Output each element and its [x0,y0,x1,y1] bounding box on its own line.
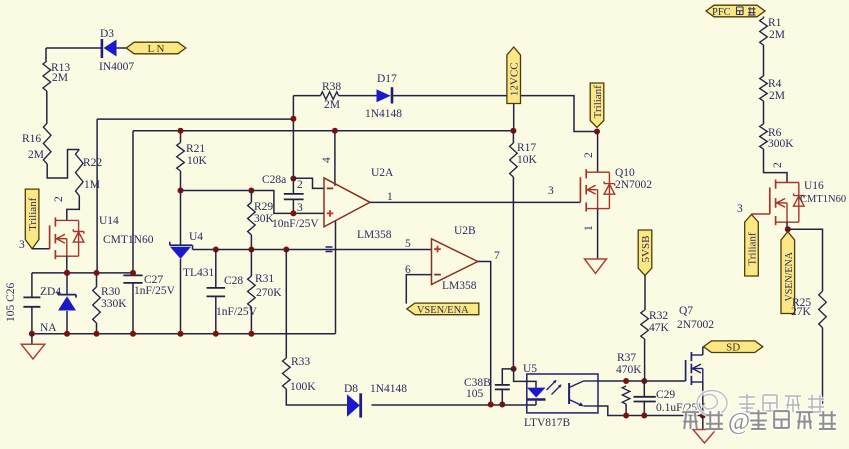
junction 12VCC R17 [510,128,516,134]
wire PFC to R1 [763,17,765,19]
svg-text:1nF/25V: 1nF/25V [134,285,176,297]
svg-text:R31: R31 [255,273,274,285]
svg-text:12VCC: 12VCC [509,62,521,96]
zener ZD4 [66,273,68,334]
diode D8 [347,394,360,417]
transistor Q10 2N7002 [585,169,587,178]
resistor R29 [248,202,256,235]
resistor R21 [177,143,185,172]
resistor R22 [76,150,84,196]
wire U2A pin8 vertical [335,220,337,334]
junction R33 top [283,247,289,253]
svg-text:300K: 300K [768,138,794,150]
wire U2B pin6 [406,275,431,304]
svg-text:Q10: Q10 [615,167,635,179]
junction R37 top [623,378,629,384]
phototransistor in U5 [568,383,570,404]
wire gate U14 [32,248,50,250]
wire R33 top [285,250,287,359]
svg-text:LM358: LM358 [357,229,392,241]
svg-text:10K: 10K [517,154,538,166]
ground symbol Q10 [585,259,607,273]
LED emission arrows [547,381,562,395]
svg-text:1: 1 [583,225,595,231]
svg-text:SD: SD [726,342,740,354]
capacitor C28a [292,178,294,213]
wire bus 190 to U2A pin3 [181,191,325,214]
junction R31 bottom [248,331,254,337]
svg-text:D8: D8 [344,383,358,395]
svg-text:2M: 2M [52,72,68,84]
svg-text:U2A: U2A [371,167,394,179]
transistor Q7 2N7002 [690,352,692,361]
wire R22 to U14 drain [67,196,80,221]
svg-text:L N: L N [147,43,164,55]
wire corner to R13 [45,48,47,61]
junction C28a pin3 [290,210,296,216]
svg-text:R22: R22 [83,157,102,169]
capacitor C26 [31,273,33,334]
capacitor C38B [502,369,513,405]
wire Q7 source [702,382,704,416]
diode D17 [377,89,391,102]
junction C28a pin2 [290,176,296,182]
svg-text:270K: 270K [256,287,282,299]
svg-text:R17: R17 [517,142,536,154]
wire U4 anode down [180,259,182,334]
wire R32 bottom [644,339,646,381]
svg-text:IN4007: IN4007 [99,61,134,73]
svg-text:2N7002: 2N7002 [615,179,652,191]
svg-text:R38: R38 [322,81,341,93]
junction U16 source [785,226,791,232]
wire LED cathode [535,401,537,405]
wire 12VCC lead [513,104,515,131]
junction C29 top [641,378,647,384]
port Trilianf right [745,215,759,277]
wire bus 417 [596,406,702,416]
svg-text:CMT1N60: CMT1N60 [800,194,846,205]
svg-text:D3: D3 [100,28,114,40]
transistor U16 CMT1N60 [775,180,777,189]
svg-text:330K: 330K [101,298,127,310]
transistor U14 CMT1N60 [54,217,56,226]
svg-text:R30: R30 [101,286,120,298]
junction U14 source [64,270,70,276]
svg-text:5: 5 [405,238,411,250]
junction C27 busG [130,331,136,337]
wire R21 to U4 [180,171,182,245]
wire from D3 cathode to corner [46,47,101,49]
op-amp U2A [324,178,370,227]
wire bus 273 [32,272,133,274]
junction R17 C38B node [511,366,517,372]
svg-text:R29: R29 [254,201,273,213]
svg-text:1: 1 [387,191,393,203]
wire bus B [133,130,513,132]
resistor R25 [819,291,827,327]
svg-text:Q7: Q7 [679,305,693,317]
svg-text:LTV817B: LTV817B [524,417,571,429]
wire bus 382 [598,380,686,382]
wire Q10 drain [597,132,599,173]
svg-text:2: 2 [297,179,303,191]
svg-text:2: 2 [583,152,595,158]
wire R6 to U16 drain [764,149,788,183]
wire LED anode [514,369,536,388]
svg-text:100K: 100K [290,381,316,393]
wire U2A pin4 [334,131,336,186]
junction R29 top [248,188,254,194]
wire Q10 source [597,209,599,259]
port SD [704,341,763,353]
wire R13 to R16 [46,91,48,123]
junction C28 top [213,247,219,253]
wire pin 2 to U2A [293,178,324,188]
svg-text:7: 7 [494,250,500,262]
wire D17 to Trilianf node [393,96,597,132]
svg-text:R16: R16 [22,133,41,145]
svg-text:10K: 10K [187,155,208,167]
svg-text:2: 2 [772,162,784,168]
resistor R33 [283,358,291,389]
svg-text:VSEN/ENA: VSEN/ENA [417,305,469,316]
wire R38 left [293,96,320,179]
junction U2B out bus404 [488,402,494,408]
svg-text:R33: R33 [291,356,310,368]
svg-text:2N7002: 2N7002 [677,319,714,331]
svg-text:U4: U4 [189,231,203,243]
svg-text:C28a: C28a [262,174,286,186]
svg-text:CMT1N60: CMT1N60 [103,234,154,246]
wire R31 leads [250,250,252,334]
svg-text:ZD4: ZD4 [40,286,61,298]
watermark headline text [682,409,836,435]
capacitor C29 [643,381,645,416]
wire R37 bottom [625,404,627,416]
wire U16 source [786,222,788,229]
junction C28 bottom [213,331,219,337]
svg-text:3: 3 [297,202,303,214]
wire bus 249 [193,249,432,251]
resistor R37 [622,386,630,404]
svg-text:105 C26: 105 C26 [5,282,17,322]
capacitor C28 [215,250,217,334]
junction R29-R31 node [248,247,254,253]
port 5VSB [638,230,652,276]
svg-text:105: 105 [466,388,484,400]
resistor R17 [510,143,518,177]
wire Q7 drain [702,347,704,355]
wire R4 to R6 [763,101,765,124]
resistor R30 [93,287,101,323]
wire R38 to D17 [339,95,377,97]
svg-text:VSEN/ENA: VSEN/ENA [784,251,795,301]
svg-text:3: 3 [19,239,25,251]
wire U14 source [66,256,68,273]
junction Q7 source bus [700,413,706,419]
junction U4 anode busG [178,331,184,337]
resistor R4 [760,76,768,101]
port PFC output [706,5,765,17]
svg-text:1N4148: 1N4148 [370,383,407,395]
svg-text:C29: C29 [656,389,675,401]
wire D3 anode to port [117,47,128,49]
junction node bus190 left [178,188,184,194]
junction ZD4 bottom [64,331,70,337]
svg-text:TL431: TL431 [183,267,215,279]
svg-text:LM358: LM358 [442,280,477,292]
resistor R31 [248,276,256,307]
ground symbol Q7 [702,416,704,430]
wire 5VSB to R32 [644,276,646,311]
wire R25 down [822,328,824,404]
resistor R13 [43,61,51,91]
svg-text:10nF/25V: 10nF/25V [272,218,319,230]
svg-text:R1: R1 [768,17,782,29]
wire busB to R21 [180,131,182,143]
svg-text:U5: U5 [523,363,537,375]
resistor R16 [43,123,51,164]
svg-text:2M: 2M [324,99,340,111]
junction C29 bottom [641,413,647,419]
svg-text:R4: R4 [768,78,782,90]
svg-text:PFC: PFC [712,7,731,18]
svg-text:5VSB: 5VSB [640,236,652,263]
watermark logo and outline text [697,391,727,416]
junction R30 bottom [94,331,100,337]
svg-text:Trilianf: Trilianf [27,197,39,231]
svg-text:R32: R32 [649,310,668,322]
svg-text:4: 4 [321,157,333,163]
svg-text:R37: R37 [617,352,636,364]
resistor R32 [641,310,649,339]
wire U2B output [478,262,491,405]
port VSEN-ENA horizontal [407,303,479,315]
svg-text:C28: C28 [224,275,243,287]
junction busA end [290,116,296,122]
svg-text:R21: R21 [186,143,205,155]
junction ZD4 top [64,270,70,276]
junction C27 bottom node [130,270,136,276]
svg-text:2M: 2M [769,29,785,41]
svg-text:D17: D17 [377,73,397,85]
svg-text:3: 3 [737,203,743,215]
junction pin4 busB [332,128,338,134]
wire left vertical from bus A [96,119,98,273]
port VSEN-ENA vertical [781,232,795,314]
wire R29 leads [250,191,252,250]
junction Trilianf Q10 [594,129,600,135]
svg-text:U2B: U2B [454,225,476,237]
svg-text:Trilianf: Trilianf [592,85,604,119]
svg-text:470K: 470K [616,364,642,376]
wire C27 branch vertical [132,131,134,334]
op-amp U2B [432,239,478,285]
svg-text:2M: 2M [28,149,44,161]
resistor R38 [321,92,339,100]
svg-text:47K: 47K [649,322,670,334]
svg-text:Trilianf: Trilianf [747,232,759,266]
wire ground bus [32,333,336,335]
junction busG left [29,331,35,337]
svg-text:NA: NA [40,322,57,334]
junction R30 top [94,270,100,276]
svg-text:2: 2 [53,196,65,202]
wire R17 leads [512,131,514,369]
LED in U5 [527,388,546,398]
resistor R6 [760,124,768,149]
svg-text:2M: 2M [769,90,785,102]
svg-text:@: @ [728,409,750,435]
svg-text:3: 3 [548,185,554,197]
wire U2A output [370,201,580,203]
junction busB R21 [178,128,184,134]
port 12VCC [507,47,521,104]
wire D8 to U5 [372,404,537,406]
port L N [126,42,186,54]
svg-text:U14: U14 [99,215,119,227]
wire R1 to R4 [763,45,765,76]
wire to R25 [788,229,823,291]
port Trilianf top [590,83,604,128]
pin 8 tick marks [326,247,333,252]
svg-text:27K: 27K [791,306,812,318]
ground symbol left [31,334,33,345]
transistor U4 TL431 [170,247,191,259]
port Trilianf left [25,189,39,249]
wire bus A [97,118,293,120]
diode D3 [104,40,117,57]
wire R30 leads [96,273,98,334]
wire R33 to D8 [286,389,347,405]
junction R37 bottom [623,413,629,419]
optocoupler U5 box [527,374,598,413]
resistor R1 [760,18,768,45]
svg-text:1N4148: 1N4148 [365,108,402,120]
junction C38B bottom [499,402,505,408]
svg-text:U16: U16 [804,180,824,192]
capacitor C27 [123,274,142,276]
wire R16 to R22 jog [47,150,79,179]
